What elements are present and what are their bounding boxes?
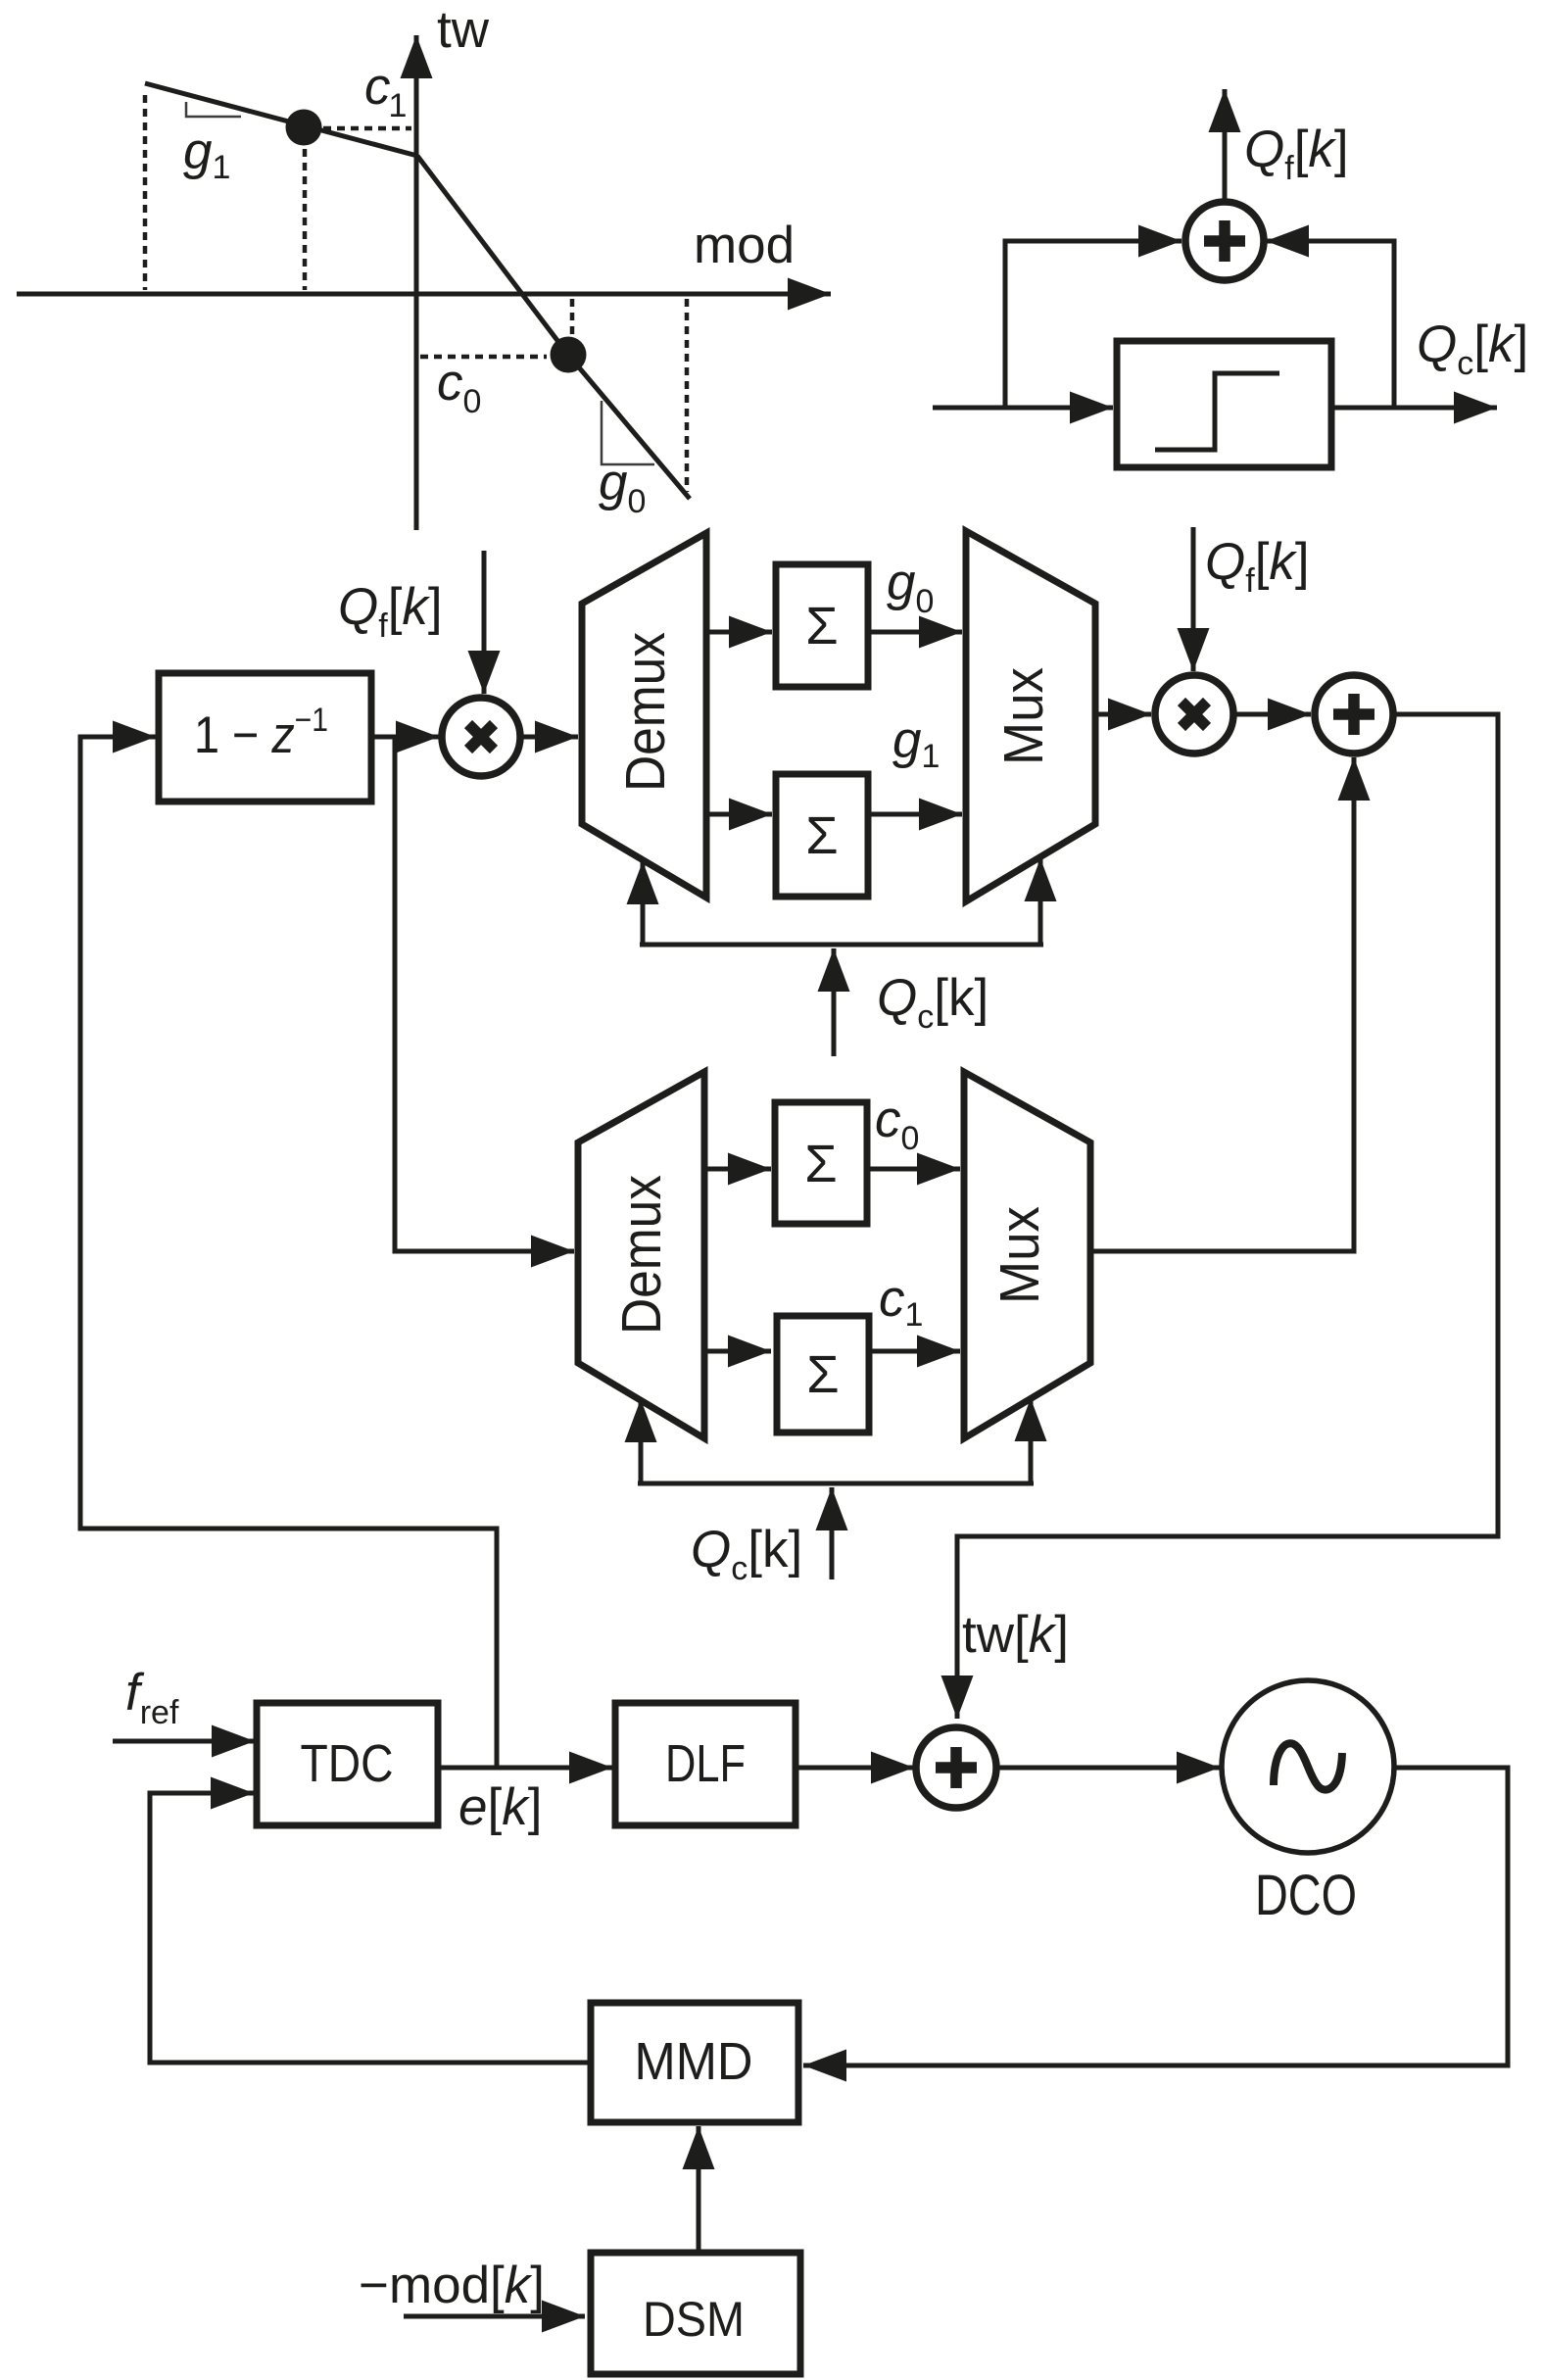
svg-text:c1: c1 <box>364 58 407 124</box>
curve segment slope g1 <box>145 83 417 156</box>
wire e-node feedback: up from TDC output to differentiator input <box>80 737 497 1768</box>
adder 2 circle <box>1315 675 1393 753</box>
svg-text:mod: mod <box>694 217 795 274</box>
svg-text:tw[k]: tw[k] <box>962 1606 1069 1664</box>
multiplier 2 circle <box>1155 675 1233 753</box>
DSM block <box>591 2253 800 2374</box>
wire multiplier 1 to demux 1 <box>520 735 578 740</box>
demux 2 trapezoid <box>578 1072 704 1438</box>
svg-text:c0: c0 <box>875 1091 919 1157</box>
svg-text:Σ: Σ <box>806 1345 839 1404</box>
DLF block <box>615 1703 796 1825</box>
adder circle (quantization error) <box>1185 202 1264 280</box>
calibration point dot on g1 segment <box>286 110 322 146</box>
mux 2 trapezoid <box>964 1072 1090 1438</box>
dotted vertical from curve start to mod axis <box>143 95 148 290</box>
offset feedback from lower mux up into adder 2 <box>1090 757 1354 1251</box>
svg-text:Qc[k]: Qc[k] <box>691 1521 802 1587</box>
svg-text:e[k]: e[k] <box>458 1778 542 1836</box>
branch from input up to adder <box>1005 241 1181 408</box>
wire sigma g1 to mux 1 <box>868 812 962 817</box>
quantizer output wire Qc[k] <box>1331 406 1497 411</box>
svg-text:tw: tw <box>437 1 490 59</box>
wire sigma c1 to mux 2 <box>869 1349 960 1354</box>
svg-text:DLF: DLF <box>665 1734 746 1793</box>
dotted vertical from mod axis to curve end <box>685 299 690 492</box>
svg-text:Σ: Σ <box>804 1135 837 1193</box>
Qc[k] select feedback (upper bank) <box>640 943 1043 947</box>
svg-text:Mux: Mux <box>988 1206 1051 1304</box>
-mod[k] input arrow into DSM <box>404 2314 585 2319</box>
accumulator sigma c0 box <box>775 1102 867 1224</box>
tw[k] path: adder 2 output right, down and into bottom adder <box>957 714 1498 1719</box>
svg-text:−mod[k]: −mod[k] <box>359 2257 545 2314</box>
svg-text:DCO: DCO <box>1255 1864 1357 1927</box>
axis tw (vertical) <box>414 35 419 530</box>
wire TDC to DLF (e[k] node) <box>438 1766 612 1771</box>
accumulator sigma g1 box <box>776 774 868 897</box>
accumulator sigma g0 box <box>776 564 868 687</box>
mux 1 trapezoid <box>966 531 1095 901</box>
TDC block <box>257 1703 438 1825</box>
svg-text:Σ: Σ <box>805 806 838 865</box>
svg-text:Qf[k]: Qf[k] <box>1244 121 1349 187</box>
branch wire down to lower demux <box>395 737 574 1251</box>
DCO output feedback to MMD <box>803 1768 1508 2065</box>
svg-text:Qf[k]: Qf[k] <box>338 578 443 645</box>
axis mod (horizontal) <box>17 292 831 297</box>
Qc[k] select feedback (lower bank) <box>638 1481 1034 1486</box>
MMD block <box>591 2003 798 2122</box>
demux 1 trapezoid <box>582 533 706 898</box>
svg-text:DSM: DSM <box>643 2292 745 2347</box>
wire mux 1 to multiplier 2 <box>1095 712 1151 717</box>
svg-text:1 − z−1: 1 − z−1 <box>194 702 328 764</box>
svg-text:Demux: Demux <box>614 632 677 792</box>
sine symbol inside DCO <box>1274 1743 1342 1789</box>
Qf[k] arrow into multiplier 2 <box>1191 527 1196 671</box>
quantizer block with step symbol <box>1117 341 1331 467</box>
dotted horizontal from tw axis to dot2 <box>420 355 547 360</box>
svg-text:c0: c0 <box>437 354 481 420</box>
quantizer input wire <box>933 406 1113 411</box>
svg-text:TDC: TDC <box>301 1734 394 1793</box>
wire DLF to adder 3 <box>796 1766 914 1771</box>
svg-text:g1: g1 <box>183 122 230 186</box>
step symbol inside quantizer <box>1155 373 1279 450</box>
Qf[k] arrow into multiplier 1 <box>482 551 487 694</box>
wire multiplier 2 to adder 2 <box>1233 712 1311 717</box>
demux 2 output top <box>704 1167 771 1172</box>
DCO oscillator circle <box>1222 1680 1394 1853</box>
svg-text:Qc[k]: Qc[k] <box>877 969 988 1036</box>
differentiator block 1-z^-1 <box>159 673 371 801</box>
curve segment slope g0 <box>417 156 690 499</box>
Qf[k] output arrow up <box>1223 89 1228 202</box>
wire adder 3 to DCO <box>996 1766 1220 1771</box>
svg-text:c1: c1 <box>879 1270 923 1334</box>
slope indicator triangle g0 <box>602 401 654 464</box>
demux 2 output bottom <box>704 1349 771 1354</box>
slope indicator triangle g1 <box>186 102 241 117</box>
adder 3 circle <box>916 1727 996 1808</box>
branch from output up to adder <box>1266 241 1394 408</box>
wire differentiator to multiplier <box>371 735 439 740</box>
calibration point dot on g0 segment <box>551 337 587 373</box>
svg-text:MMD: MMD <box>635 2032 753 2091</box>
accumulator sigma c1 box <box>777 1316 869 1433</box>
multiplier 1 circle <box>442 698 520 776</box>
svg-text:Qf[k]: Qf[k] <box>1205 533 1310 600</box>
wire sigma c0 to mux 2 <box>867 1167 960 1172</box>
demux 1 output bottom <box>706 812 772 817</box>
svg-text:Demux: Demux <box>610 1175 673 1335</box>
dotted horizontal from dot1 to tw axis <box>323 126 411 131</box>
dotted vertical from dot1 to mod axis <box>303 149 308 290</box>
DSM to MMD arrow <box>697 2126 701 2251</box>
svg-text:Qc[k]: Qc[k] <box>1417 316 1528 382</box>
demux 1 output top <box>706 630 772 635</box>
svg-text:g0: g0 <box>887 554 934 620</box>
svg-text:Σ: Σ <box>805 597 838 656</box>
dotted vertical from mod axis to dot2 <box>570 299 575 334</box>
svg-text:g1: g1 <box>892 711 940 775</box>
fref input arrow <box>113 1739 255 1744</box>
feedback wire from MMD into TDC <box>150 1793 591 2063</box>
svg-text:Mux: Mux <box>992 667 1055 765</box>
wire sigma g0 to mux 1 <box>868 630 962 635</box>
svg-text:fref: fref <box>125 1664 179 1731</box>
